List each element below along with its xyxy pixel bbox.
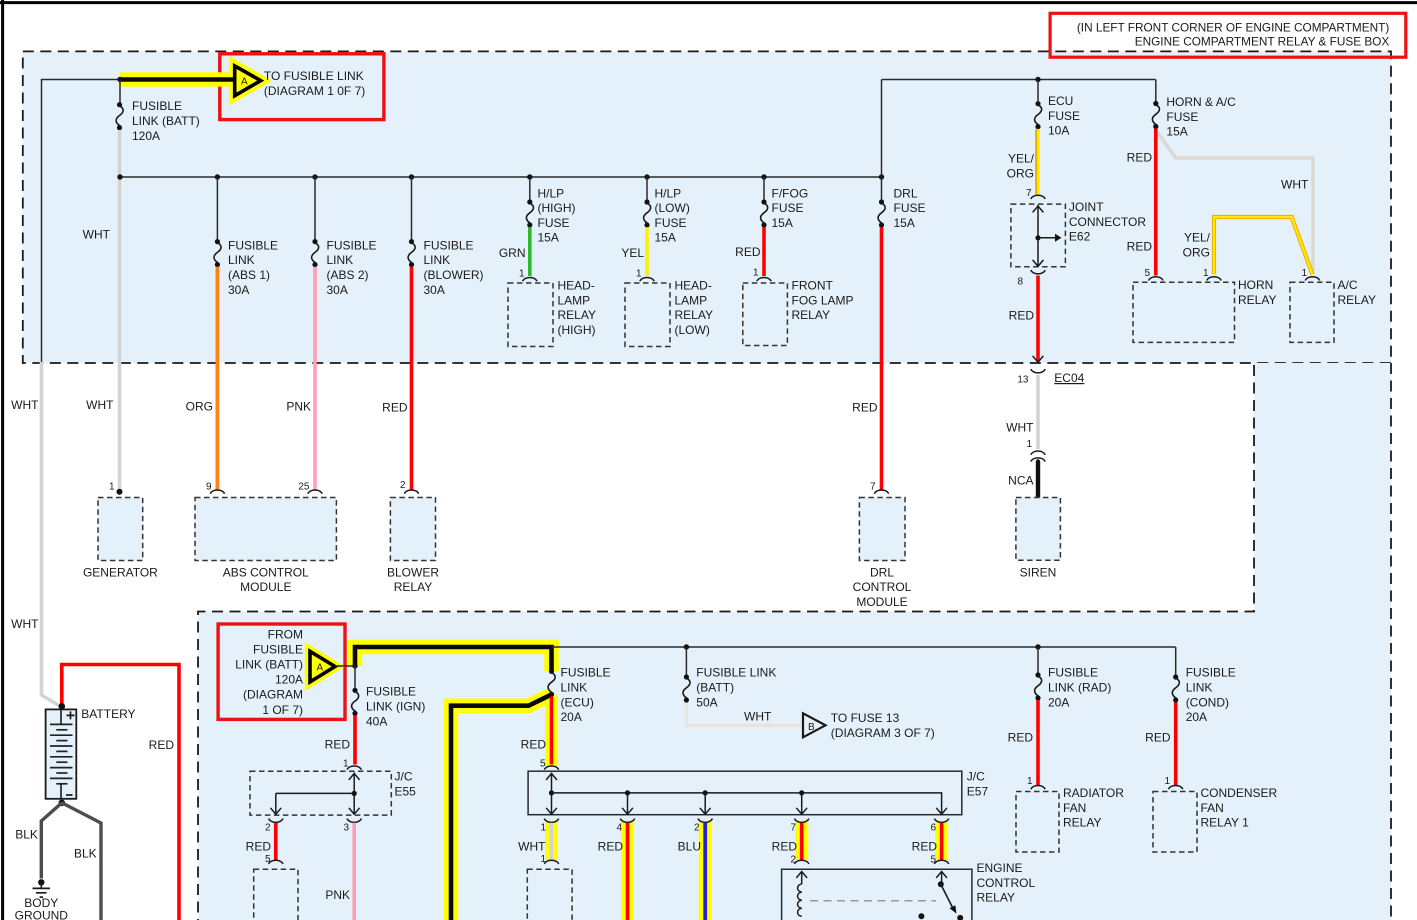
svg-text:RELAY: RELAY (558, 308, 596, 322)
svg-text:2: 2 (265, 823, 271, 834)
relay actuation dashed link (810, 900, 936, 902)
svg-text:CONNECTOR: CONNECTOR (1069, 215, 1146, 229)
wire RED: J/C E57 pin 7 to engine control relay pin 2 (800, 823, 804, 860)
svg-text:H/LP: H/LP (538, 186, 565, 200)
relay switch (936, 872, 947, 878)
wire: drop to DRL fuse (881, 177, 883, 202)
wire BLK: battery negative to body ground (41, 803, 62, 879)
svg-text:2: 2 (790, 855, 796, 866)
svg-text:LINK (BATT): LINK (BATT) (132, 114, 200, 128)
pin 2 arc J/C E55 (269, 819, 283, 823)
node: battery negative junction (59, 800, 66, 807)
svg-text:LINK (BATT): LINK (BATT) (235, 658, 303, 672)
wire RED: J/C E55 pin 2 to connector pin 5 (274, 823, 278, 860)
wire: lower bus to fusible links (552, 646, 1176, 648)
pin 8 connector arc of E62 (1031, 270, 1045, 274)
node: junction dot at fusible link (IGN) tap (352, 663, 357, 668)
svg-text:15A: 15A (1166, 125, 1187, 139)
wire: arrow A to junction (335, 665, 355, 667)
svg-text:YEL/: YEL/ (1184, 231, 1211, 245)
wire: drop to fusible link (BATT) 50A (685, 647, 687, 677)
engine compartment relay &amp; fuse box (dashed blue area, top) (23, 51, 1391, 363)
fusible link (IGN) 40A symbol (352, 688, 359, 716)
svg-text:20A: 20A (561, 710, 582, 724)
svg-text:RED: RED (912, 839, 938, 853)
wire WHT: fusible link (BATT) 50A to arrow B (686, 703, 802, 726)
svg-text:A/C: A/C (1338, 278, 1358, 292)
highlighted battery feed wire glow (top) (120, 72, 233, 87)
svg-text:F/FOG: F/FOG (772, 186, 809, 200)
blower relay box (390, 498, 435, 561)
svg-text:ENGINE COMPARTMENT RELAY & FUS: ENGINE COMPARTMENT RELAY & FUSE BOX (1135, 35, 1390, 49)
wire YEL: H/LP (LOW) fuse to headlamp relay (low) pin 1 (645, 227, 649, 276)
battery BT1 (46, 703, 77, 806)
fuse H/LP (LOW) 15A symbol (644, 199, 651, 227)
svg-text:LAMP: LAMP (675, 293, 708, 307)
wire NCA: connector to siren (1036, 462, 1040, 498)
svg-text:RELAY 1: RELAY 1 (1201, 816, 1250, 830)
wire: drop to H/LP (LOW) fuse (646, 177, 648, 202)
svg-text:YEL: YEL (621, 246, 644, 260)
svg-text:GENERATOR: GENERATOR (83, 565, 158, 579)
svg-text:ORG: ORG (1007, 166, 1034, 180)
svg-text:1: 1 (540, 854, 546, 865)
wire WHT: EC04 pin 13 to in-line connector pin 1 (1036, 375, 1040, 449)
svg-text:WHT: WHT (744, 709, 772, 723)
svg-text:RELAY: RELAY (675, 308, 713, 322)
relay coil (796, 872, 807, 878)
svg-text:FRONT: FRONT (792, 279, 834, 293)
wire: corner drop to fusible link (COND) (1175, 647, 1177, 677)
wire WHT: left column down to battery (42, 362, 60, 706)
glow on J/C E57 output wires (545, 822, 558, 860)
wire PNK: J/C E55 pin 3 to bottom (352, 823, 356, 920)
svg-text:ABS CONTROL: ABS CONTROL (223, 565, 309, 579)
svg-text:J/C: J/C (395, 770, 413, 784)
internal arrows J/C E55 (353, 773, 355, 814)
svg-text:(BLOWER): (BLOWER) (424, 268, 484, 282)
wire: top bus right segment (882, 79, 1156, 81)
node: junction dot fusible link (BATT) 50A tap (684, 644, 689, 649)
DRL control module box (859, 498, 905, 561)
pin 1 arc below J/C E57 (544, 860, 558, 864)
svg-text:1: 1 (519, 269, 525, 280)
pin 4 arc J/C E57 (620, 819, 634, 823)
wire WHT: HORN fuse to A/C relay pin 1 (1156, 130, 1313, 275)
svg-text:20A: 20A (1186, 710, 1207, 724)
page frame top/left (0, 1, 1417, 4)
svg-text:1: 1 (1203, 268, 1209, 279)
svg-text:FUSIBLE: FUSIBLE (253, 642, 303, 656)
svg-text:LINK: LINK (228, 253, 255, 267)
pin 1 arc front fog lamp relay (757, 277, 771, 281)
svg-text:7: 7 (1026, 188, 1032, 199)
svg-text:YEL/: YEL/ (1008, 152, 1035, 166)
svg-text:15A: 15A (894, 216, 915, 230)
svg-text:MODULE: MODULE (856, 595, 907, 609)
pin 1 arc J/C E55 (347, 766, 361, 770)
pin 5 arc J/C E57 (544, 766, 558, 770)
svg-text:RELAY: RELAY (1338, 293, 1376, 307)
svg-text:13: 13 (1017, 374, 1029, 385)
pin 5 arc engine control relay (934, 860, 948, 864)
wire RED: fusible link (BLOWER) to blower relay pin 2 (410, 267, 414, 490)
svg-text:6: 6 (930, 823, 936, 834)
node: battery positive terminal (59, 703, 66, 710)
wire BLK: battery negative to bottom (62, 803, 101, 920)
svg-text:FUSIBLE: FUSIBLE (1186, 666, 1236, 680)
svg-text:2: 2 (400, 480, 406, 491)
wire BLU: J/C E57 pin 2 to bottom (703, 823, 707, 920)
pin 6 arc J/C E57 (934, 819, 948, 823)
svg-text:J/C: J/C (967, 770, 985, 784)
svg-text:30A: 30A (424, 283, 445, 297)
svg-text:9: 9 (206, 481, 212, 492)
wire RED: J/C E57 pin 6 to engine control relay pin 5 (940, 823, 944, 860)
svg-text:1: 1 (636, 269, 642, 280)
wire: drop to ECU fuse (1037, 80, 1039, 104)
svg-text:5: 5 (265, 854, 271, 865)
condenser fan relay 1 box (1153, 792, 1197, 853)
svg-text:RED: RED (325, 738, 351, 752)
pin 5 arc horn relay (1149, 277, 1163, 281)
arrow A (lower) glow (310, 651, 335, 682)
svg-text:RED: RED (1009, 309, 1035, 323)
svg-text:LINK: LINK (327, 253, 354, 267)
wire RED: J/C E57 pin 4 to bottom (626, 823, 630, 920)
fuse DRL 15A symbol (878, 199, 885, 227)
svg-text:FAN: FAN (1201, 801, 1224, 815)
svg-text:BLK: BLK (74, 847, 97, 861)
svg-text:1: 1 (1027, 776, 1033, 787)
dashed box below J/C E57 pin 1 (527, 869, 572, 920)
svg-text:1: 1 (540, 823, 546, 834)
svg-text:RADIATOR: RADIATOR (1063, 786, 1124, 800)
svg-text:(HIGH): (HIGH) (558, 323, 596, 337)
svg-text:2: 2 (694, 823, 700, 834)
svg-text:FUSE: FUSE (772, 201, 804, 215)
svg-text:RELAY: RELAY (1238, 293, 1276, 307)
svg-text:FUSIBLE: FUSIBLE (327, 238, 377, 252)
svg-text:A: A (241, 77, 248, 88)
highlighted ECU feed wire glow (to bottom) (451, 695, 552, 920)
svg-text:RED: RED (521, 738, 547, 752)
wire PNK: fusible link (ABS 2) to ABS control module pin 25 (313, 267, 317, 490)
svg-text:CONTROL: CONTROL (977, 876, 1036, 890)
svg-text:FROM: FROM (268, 627, 303, 641)
red box around arrow A (lower / FROM FUSIBLE LINK) (218, 624, 345, 719)
svg-text:WHT: WHT (1281, 178, 1309, 192)
wire RED: fusible link (RAD) to radiator fan relay pin 1 (1036, 700, 1040, 785)
body ground symbol (33, 879, 51, 897)
svg-text:WHT: WHT (11, 617, 39, 631)
svg-text:FUSIBLE: FUSIBLE (132, 99, 182, 113)
arrow B triangle (TO FUSE 13) (803, 713, 826, 737)
wire: main bus y=177 (120, 176, 882, 178)
arrow A (lower) triangle (310, 651, 335, 682)
fuse ECU 10A symbol (1035, 101, 1042, 129)
svg-text:BLU: BLU (678, 839, 701, 853)
fusible link (COND) 20A symbol (1172, 674, 1179, 702)
generator box (98, 498, 143, 561)
arrow A (top) triangle (235, 66, 261, 96)
wire: drop to fusible link (ABS 1) (216, 177, 218, 242)
svg-text:LINK: LINK (561, 681, 588, 695)
J/C E57 box (solid) (528, 766, 962, 822)
wire RED: HORN fuse to horn relay pin 5 (1154, 129, 1158, 276)
svg-text:TO FUSIBLE LINK: TO FUSIBLE LINK (264, 69, 364, 83)
svg-text:TO FUSE 13: TO FUSE 13 (831, 711, 900, 725)
svg-text:GROUND: GROUND (15, 909, 69, 920)
svg-text:RED: RED (735, 245, 761, 259)
pin 2 arc J/C E57 (698, 819, 712, 823)
svg-text:FUSIBLE: FUSIBLE (1048, 666, 1098, 680)
internal bus of J/C E57 (551, 773, 553, 814)
svg-text:LINK (RAD): LINK (RAD) (1048, 681, 1111, 695)
svg-text:RED: RED (149, 738, 175, 752)
pin 3 arc J/C E55 (347, 819, 361, 823)
wire GRN: H/LP (HIGH) fuse to headlamp relay (high) pin 1 (528, 227, 532, 276)
svg-text:1: 1 (1164, 776, 1170, 787)
wire: drop from bus to fusible link (BATT) (119, 80, 121, 105)
svg-text:FUSIBLE: FUSIBLE (366, 685, 416, 699)
svg-text:RELAY: RELAY (977, 891, 1015, 905)
svg-text:25: 25 (298, 481, 310, 492)
wire RED: fusible link (IGN) to J/C E55 pin 1 (353, 716, 357, 765)
svg-text:BATTERY: BATTERY (81, 707, 135, 721)
svg-text:DRL: DRL (870, 565, 894, 579)
svg-text:LAMP: LAMP (558, 293, 591, 307)
svg-text:1: 1 (343, 759, 349, 770)
svg-text:RED: RED (852, 401, 878, 415)
fusible link (BLOWER) 30A symbol (408, 239, 415, 267)
thick battery feed wire core (lower) (355, 647, 552, 671)
svg-text:15A: 15A (655, 231, 676, 245)
red box around arrow A (top) (220, 54, 384, 120)
connector EC04 pin 13 arc (1031, 369, 1045, 373)
svg-text:SIREN: SIREN (1020, 565, 1057, 579)
svg-text:CONTROL: CONTROL (853, 580, 912, 594)
wire WHT: below fusible link (BATT) down to generator (118, 130, 122, 490)
pin 1 arc horn relay (1207, 277, 1221, 281)
svg-text:50A: 50A (696, 695, 717, 709)
svg-text:(DIAGRAM: (DIAGRAM (243, 688, 303, 702)
node: bus junction dots (117, 174, 122, 179)
pin 1 arc headlamp relay (HIGH) (523, 277, 537, 281)
svg-text:FUSIBLE LINK: FUSIBLE LINK (696, 666, 776, 680)
svg-text:(LOW): (LOW) (675, 323, 710, 337)
svg-text:7: 7 (790, 823, 796, 834)
wire RED: DRL fuse to DRL control module pin 7 (880, 227, 884, 490)
internal bus arrow of E62 (1037, 205, 1039, 266)
svg-text:FUSIBLE: FUSIBLE (561, 666, 611, 680)
wire RED: fusible link (COND) to condenser fan relay 1 pin 1 (1174, 703, 1178, 786)
svg-text:RELAY: RELAY (394, 580, 432, 594)
pin 1 arc A/C relay (1305, 277, 1319, 281)
dashed box below J/C E55 pin 5 (254, 869, 298, 920)
fusible link (ECU) 20A symbol (548, 669, 555, 697)
svg-text:30A: 30A (228, 283, 249, 297)
svg-text:(COND): (COND) (1186, 695, 1229, 709)
wire: drop to HORN &amp; A/C fuse (1155, 80, 1157, 104)
pin 5 arc below J/C E55 (269, 860, 283, 864)
svg-text:RELAY: RELAY (1063, 816, 1101, 830)
node: junction dot at fusible link (BATT) tap (117, 77, 122, 82)
joint connector E62 box (1011, 195, 1066, 274)
svg-text:FUSIBLE: FUSIBLE (424, 238, 474, 252)
svg-text:ECU: ECU (1048, 94, 1073, 108)
wire: drop to fusible link (IGN) (354, 666, 356, 690)
J/C E55 box (250, 766, 391, 822)
svg-text:RELAY: RELAY (792, 308, 830, 322)
headlamp relay (LOW) box (625, 283, 670, 347)
svg-text:ORG: ORG (186, 400, 213, 414)
svg-text:MODULE: MODULE (240, 580, 291, 594)
wire RED: E62 pin 8 to connector EC04 pin 13 (1036, 276, 1040, 362)
svg-text:JOINT: JOINT (1069, 200, 1104, 214)
pin 7 arc DRL control module (874, 490, 888, 494)
svg-text:WHT: WHT (83, 227, 111, 241)
wire RED: battery positive feed (62, 665, 179, 920)
wire YEL/ORG: ECU fuse to joint connector E62 pin 7 (1035, 129, 1039, 195)
wire: drop to fusible link (ABS 2) (314, 177, 316, 242)
lower harness dashed blue area (L-shape) (198, 363, 1391, 920)
ABS control module box (195, 498, 336, 561)
svg-text:LINK: LINK (424, 253, 451, 267)
svg-text:120A: 120A (132, 129, 160, 143)
in-line connector pin 1 / NCA double arc (1031, 451, 1045, 455)
svg-text:A: A (317, 663, 324, 674)
svg-text:1: 1 (1301, 268, 1307, 279)
headlamp relay (HIGH) box (508, 283, 553, 347)
svg-text:ORG: ORG (1183, 245, 1210, 259)
svg-text:CONDENSER: CONDENSER (1201, 786, 1278, 800)
svg-text:5: 5 (540, 759, 546, 770)
svg-text:1: 1 (109, 481, 115, 492)
svg-text:H/LP: H/LP (655, 186, 682, 200)
svg-text:FUSIBLE: FUSIBLE (228, 238, 278, 252)
svg-text:HEAD-: HEAD- (675, 279, 712, 293)
pin 7 arc J/C E57 (795, 819, 809, 823)
radiator fan relay box (1016, 792, 1059, 853)
wire: top-left corner black wire from bus to left column (42, 80, 121, 364)
svg-text:BLK: BLK (15, 828, 38, 842)
horn relay box (1133, 282, 1235, 342)
engine control relay box (solid, cut at bottom) (782, 860, 972, 920)
svg-text:RED: RED (772, 839, 798, 853)
svg-text:HEAD-: HEAD- (558, 279, 595, 293)
svg-text:RED: RED (598, 839, 624, 853)
svg-text:FAN: FAN (1063, 801, 1086, 815)
svg-text:10A: 10A (1048, 124, 1069, 138)
svg-text:FUSE: FUSE (538, 216, 570, 230)
svg-text:(DIAGRAM 3 OF 7): (DIAGRAM 3 OF 7) (831, 726, 935, 740)
node: junction dot ECU fuse tap (1035, 77, 1040, 82)
title callout red box (1050, 13, 1406, 57)
svg-text:E57: E57 (967, 784, 989, 798)
wire: drop to fusible link (BLOWER) (411, 177, 413, 242)
svg-text:120A: 120A (275, 673, 303, 687)
svg-text:5: 5 (930, 855, 936, 866)
fuse H/LP (HIGH) 15A symbol (526, 199, 533, 227)
svg-text:ENGINE: ENGINE (977, 861, 1023, 875)
wire: drop to F/FOG fuse (763, 177, 765, 202)
svg-text:WHT: WHT (86, 398, 114, 412)
svg-text:FUSE: FUSE (1166, 110, 1198, 124)
svg-text:BLOWER: BLOWER (387, 565, 439, 579)
svg-text:HORN: HORN (1238, 278, 1273, 292)
pin 1 arc radiator fan relay (1031, 785, 1045, 789)
wire: riser from bus to top bus right (881, 80, 883, 178)
pin 2 arc engine control relay (795, 860, 809, 864)
svg-text:(DIAGRAM 1 0F 7): (DIAGRAM 1 0F 7) (264, 84, 365, 98)
svg-text:8: 8 (1017, 277, 1023, 288)
svg-text:RED: RED (246, 839, 272, 853)
svg-text:1: 1 (1026, 439, 1032, 450)
svg-text:RED: RED (1145, 731, 1171, 745)
svg-text:LINK (IGN): LINK (IGN) (366, 700, 425, 714)
svg-text:WHT: WHT (518, 839, 546, 853)
wire RED: F/FOG fuse to front fog lamp relay pin 1 (762, 227, 766, 276)
svg-text:DRL: DRL (894, 186, 918, 200)
svg-text:30A: 30A (327, 283, 348, 297)
pin 1 arc condenser fan relay 1 (1169, 785, 1183, 789)
svg-text:PNK: PNK (325, 888, 350, 902)
thick feed wire core from fusible link (ECU) down-left to bottom (451, 695, 552, 920)
svg-text:4: 4 (616, 823, 622, 834)
highlighted battery feed wire glow (lower) (355, 647, 552, 671)
fusible link (BATT) 50A symbol (683, 674, 690, 702)
wire: drop to H/LP (HIGH) fuse (529, 177, 531, 202)
svg-text:1 OF 7): 1 OF 7) (262, 703, 303, 717)
svg-text:15A: 15A (772, 216, 793, 230)
svg-text:3: 3 (343, 823, 349, 834)
svg-text:FUSE: FUSE (1048, 109, 1080, 123)
svg-text:7: 7 (870, 481, 876, 492)
front fog lamp relay box (743, 283, 788, 346)
svg-text:40A: 40A (366, 715, 387, 729)
wire RED: fusible link (ECU) to J/C E57 pin 5 (550, 697, 554, 765)
svg-text:LINK: LINK (1186, 681, 1213, 695)
svg-text:WHT: WHT (1006, 421, 1034, 435)
wire YEL/ORG: horn relay pin 1 to A/C relay pin 1 (1214, 217, 1313, 275)
svg-text:FOG LAMP: FOG LAMP (792, 293, 854, 307)
wire: drop to fusible link (RAD) (1037, 647, 1039, 675)
wire WHT: J/C E57 pin 1 to connector pin 1 (550, 823, 554, 860)
svg-text:RED: RED (1008, 731, 1034, 745)
svg-text:(ABS 2): (ABS 2) (327, 268, 369, 282)
svg-text:(HIGH): (HIGH) (538, 201, 576, 215)
svg-text:(BATT): (BATT) (696, 681, 734, 695)
svg-text:FUSE: FUSE (894, 201, 926, 215)
pin 1 arc headlamp relay (LOW) (640, 277, 654, 281)
svg-text:E55: E55 (395, 784, 417, 798)
pin 1 arc J/C E57 (544, 819, 558, 823)
svg-text:(LOW): (LOW) (655, 201, 690, 215)
pin 7 connector arc of E62 (1031, 195, 1045, 199)
svg-text:RED: RED (1127, 240, 1153, 254)
pin 9 arc ABS control module (210, 490, 224, 494)
fuse HORN &amp; A/C 15A symbol (1152, 101, 1159, 129)
arrowhead at EC04 boundary (1033, 356, 1044, 362)
svg-text:FUSE: FUSE (655, 216, 687, 230)
svg-text:15A: 15A (538, 231, 559, 245)
svg-text:B: B (808, 722, 815, 733)
A/C relay box (1290, 282, 1334, 342)
svg-text:(ECU): (ECU) (561, 695, 594, 709)
fuse F/FOG 15A symbol (761, 199, 768, 227)
svg-text:NCA: NCA (1008, 473, 1033, 487)
